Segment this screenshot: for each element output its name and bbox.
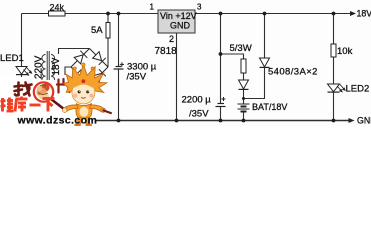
primary coil xyxy=(42,55,46,84)
svg-text:GND: GND xyxy=(170,21,191,31)
face xyxy=(72,81,95,104)
wire 5408 to junction xyxy=(244,68,265,99)
svg-text:3: 3 xyxy=(197,3,202,12)
watermark white backing xyxy=(0,77,96,126)
blush xyxy=(73,94,77,98)
wire 10k branch drop xyxy=(333,14,335,45)
wire resistor to diode D2 xyxy=(243,73,245,80)
bangs xyxy=(74,81,93,88)
regulator U1 7818 box xyxy=(150,3,203,58)
svg-text:5A: 5A xyxy=(91,25,103,36)
svg-text:LED2: LED2 xyxy=(346,84,370,95)
wire LED1 cathode down xyxy=(21,74,23,120)
LED LED1 xyxy=(0,53,32,75)
wire 10k to LED2 xyxy=(333,57,335,84)
node C1/GND rail xyxy=(117,119,121,123)
char xia xyxy=(43,99,55,112)
resistor R3 10k xyxy=(331,44,353,57)
watermark circle logo xyxy=(34,82,53,101)
wire bridge left corner stub xyxy=(65,67,71,75)
watermark red text (wei ku yi xia) xyxy=(1,97,55,112)
wire LED2 to GND rail xyxy=(333,92,335,121)
wire 2200uF branch upper xyxy=(220,14,222,104)
node 5408/top rail xyxy=(263,12,267,16)
wire stub to 5/3W resistor xyxy=(221,54,244,59)
node 10k/top rail xyxy=(332,12,336,16)
node C1/top rail xyxy=(117,12,121,16)
svg-text:2: 2 xyxy=(169,34,174,44)
wire top rail left xyxy=(22,13,159,15)
node C2/GND rail xyxy=(219,119,223,123)
resistor R1 24k xyxy=(49,3,66,17)
svg-text:7818: 7818 xyxy=(155,46,178,57)
svg-text:18V: 18V xyxy=(51,57,62,75)
svg-text:/35V: /35V xyxy=(189,109,209,120)
eyes xyxy=(78,90,81,93)
wire left drop to LED1 xyxy=(21,14,23,67)
char ku xyxy=(15,97,28,112)
svg-text:18V: 18V xyxy=(357,9,371,19)
resistor R2 5/3W xyxy=(230,43,252,73)
svg-text:10k: 10k xyxy=(337,46,353,57)
capacitor C1 3300u/35V xyxy=(114,62,157,83)
bridge rectifier xyxy=(71,49,108,86)
LED LED2 xyxy=(328,84,370,95)
svg-text:1: 1 xyxy=(150,3,155,12)
svg-text:BAT/18V: BAT/18V xyxy=(252,102,287,112)
diode D-TR (points to right corner) xyxy=(93,52,102,61)
wire top rail right xyxy=(195,13,350,15)
wire 2200uF branch lower xyxy=(220,107,222,121)
fuse 5A xyxy=(91,23,110,39)
hair spikes xyxy=(64,64,107,96)
diode D-BR (points to right corner) xyxy=(93,73,102,82)
core xyxy=(46,51,48,86)
node pin2/GND rail xyxy=(175,119,179,123)
char yi xyxy=(30,104,41,107)
svg-text:LED1: LED1 xyxy=(0,53,24,64)
node charge branch tap xyxy=(219,52,223,56)
left arm xyxy=(64,105,78,112)
svg-text:/35V: /35V xyxy=(127,72,147,83)
bridge edge L-B xyxy=(71,67,90,86)
svg-text:www.dzsc.com: www.dzsc.com xyxy=(17,114,98,126)
node battery/GND rail xyxy=(242,119,246,123)
bridge edge T-R xyxy=(90,49,109,68)
wire fuse to bridge right corner xyxy=(107,38,109,67)
diode D-LB (points to bottom corner) xyxy=(74,70,83,79)
wire 7818 pin2 down xyxy=(176,33,178,121)
diode D3 5408/3Ax2 xyxy=(260,58,318,78)
transformer T1 xyxy=(42,51,55,86)
wire fuse drop xyxy=(107,14,109,23)
diode D-TL (points to top corner) xyxy=(74,55,83,64)
svg-text:2200 µ: 2200 µ xyxy=(182,95,212,106)
svg-text:5/3W: 5/3W xyxy=(230,43,252,54)
body xyxy=(76,104,92,118)
node fuse/top rail xyxy=(106,12,110,16)
char wei xyxy=(1,98,14,112)
right arm xyxy=(90,105,104,112)
gem xyxy=(81,79,85,83)
tool in right hand xyxy=(103,110,112,113)
battery BAT/18V xyxy=(238,102,288,112)
secondary coil xyxy=(51,55,55,84)
capacitor C2 2200u/35V xyxy=(182,95,226,120)
wire 5408 branch drop xyxy=(264,14,266,59)
svg-text:24k: 24k xyxy=(50,3,65,13)
diode D2 (charge diode) xyxy=(239,80,249,89)
svg-text:5408/3A×2: 5408/3A×2 xyxy=(268,67,318,78)
legs xyxy=(78,118,81,124)
wire bottom GND rail xyxy=(20,120,349,122)
wire D2 to battery xyxy=(243,90,245,104)
svg-text:220V: 220V xyxy=(34,55,45,79)
svg-text:Vin +12V: Vin +12V xyxy=(160,11,197,21)
node battery top junction xyxy=(242,97,245,100)
node C2 branch/top rail xyxy=(219,12,223,16)
wire 3300uF branch lower xyxy=(118,69,120,121)
output arrow GND xyxy=(349,116,371,126)
svg-text:GND: GND xyxy=(357,116,371,126)
watermark char (find) xyxy=(15,83,32,96)
watermark char (pian) xyxy=(57,79,70,93)
watermark magnifier handle xyxy=(51,99,65,110)
wire battery bottom stub xyxy=(243,112,245,121)
wire 3300uF branch upper xyxy=(118,14,120,67)
wire transformer secondary top to bridge xyxy=(59,49,90,55)
bridge edge B-R xyxy=(90,67,109,86)
mouth xyxy=(81,96,85,99)
node LED2/GND rail xyxy=(332,119,336,123)
output arrow 18V xyxy=(350,9,371,19)
watermark mascot xyxy=(62,63,111,127)
bridge edge L-T xyxy=(71,49,90,68)
